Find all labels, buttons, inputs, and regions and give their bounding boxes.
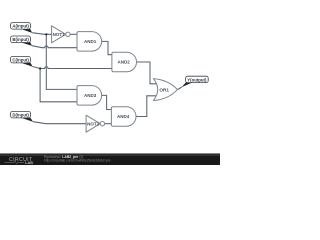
svg-text:AND1: AND1 — [84, 39, 97, 44]
AND gate AND2 — [112, 52, 137, 71]
svg-text:AND2: AND2 — [118, 60, 131, 65]
junction dot node C — [39, 67, 41, 69]
AND gate AND3 — [77, 86, 102, 106]
wire AND4 output to OR1 input 2 — [136, 96, 158, 117]
output label Y(output) — [182, 76, 209, 87]
wire AND1 output to AND2 input 1 — [101, 41, 112, 54]
wire NOT1 output to AND1 input 1 — [70, 33, 77, 35]
svg-text:LAB: LAB — [25, 161, 33, 165]
svg-text:D(input): D(input) — [12, 113, 29, 118]
svg-text:Y(output): Y(output) — [187, 77, 207, 82]
footer bar — [0, 153, 220, 165]
NOT gate NOT1 — [52, 26, 71, 43]
wire B from label to AND1 input 2 (with hop over A branch) — [32, 46, 77, 48]
wire C from label to AND2 input 2 (with hop over A branch) — [33, 67, 113, 69]
svg-text:NOT2: NOT2 — [87, 121, 99, 126]
svg-text:A(input): A(input) — [12, 24, 29, 29]
wire NOT2 output to AND4 input 2 — [104, 123, 111, 125]
svg-text:OR1: OR1 — [159, 87, 169, 92]
CircuitLab logo — [5, 157, 34, 165]
wire A branch vertical to AND3 input 1 — [46, 34, 77, 89]
wire D from label to NOT2 input — [33, 122, 86, 124]
junction dot node A — [45, 33, 47, 35]
wire C branch vertical to AND3 input 2 — [40, 69, 77, 102]
svg-text:NOT1: NOT1 — [53, 32, 65, 37]
svg-text:B(input): B(input) — [12, 37, 29, 42]
svg-text:AND3: AND3 — [84, 93, 97, 98]
svg-text:http://circuitlab.com/c/hu499s: http://circuitlab.com/c/hu499s29nds3/lab… — [44, 158, 111, 162]
wire OR1 output to Y label — [178, 87, 182, 90]
svg-text:C(input): C(input) — [12, 58, 29, 63]
svg-text:AND4: AND4 — [117, 114, 130, 119]
input label A(input) — [11, 23, 33, 33]
footer title text — [44, 155, 83, 159]
footer url text — [44, 158, 111, 162]
input label C(input) — [11, 56, 33, 66]
OR gate OR1 — [153, 79, 177, 101]
NOT gate NOT2 — [86, 115, 105, 132]
wire AND3 output to AND4 input 1 — [101, 95, 112, 109]
wire A from label to NOT1 input — [32, 33, 52, 35]
wire AND2 output to OR1 input 1 — [136, 62, 158, 84]
input label D(input) — [11, 111, 34, 122]
AND gate AND4 — [111, 107, 136, 127]
AND gate AND1 — [77, 32, 102, 51]
input label B(input) — [11, 36, 32, 46]
